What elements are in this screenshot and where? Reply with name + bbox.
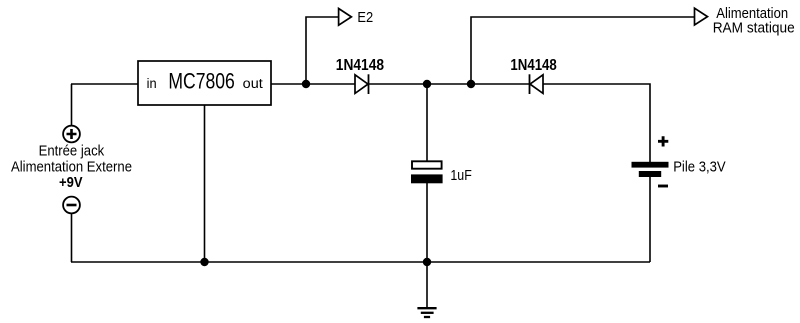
regulator U1 MC7806 — [138, 61, 271, 105]
wire capacitor down to bottom rail — [426, 183, 428, 262]
capacitor C1 1uF — [411, 161, 443, 183]
label battery plus — [658, 136, 668, 146]
arrow Alimentation RAM statique — [695, 8, 708, 25]
svg-text:1N4148: 1N4148 — [510, 57, 556, 74]
battery BT1 Pile 3,3V — [632, 162, 669, 177]
wire ground stem — [426, 262, 428, 308]
node E2 tap — [302, 80, 310, 88]
wire jack minus down to bottom rail — [71, 214, 73, 262]
node capacitor tap — [423, 80, 431, 88]
jack minus terminal — [63, 197, 80, 214]
wire input horizontal to regulator — [71, 83, 138, 85]
wire bottom rail — [71, 261, 650, 263]
diode D2 1N4148 — [530, 74, 544, 94]
wire regulator ground down to bottom rail — [204, 105, 206, 262]
wire D1 cathode to D2 cathode — [368, 83, 529, 85]
svg-text:1N4148: 1N4148 — [336, 57, 384, 74]
node RAM tap — [467, 80, 475, 88]
node capacitor / bottom rail — [423, 258, 431, 266]
wire battery minus down to bottom rail — [649, 177, 651, 262]
wire RAM branch — [471, 17, 695, 84]
svg-text:Pile 3,3V: Pile 3,3V — [673, 160, 726, 176]
svg-text:1uF: 1uF — [450, 168, 472, 184]
node regulator ground / bottom rail — [200, 258, 208, 266]
wire E2 branch — [306, 17, 339, 84]
wire regulator out to diode D1 — [271, 83, 355, 85]
svg-text:in: in — [147, 76, 157, 91]
diode D1 1N4148 — [355, 74, 369, 94]
ground — [417, 308, 436, 317]
svg-text:E2: E2 — [357, 10, 373, 26]
svg-text:Alimentation Externe: Alimentation Externe — [11, 159, 132, 175]
arrow E2 — [339, 9, 352, 26]
wire D2 anode to battery top corner — [543, 84, 650, 162]
label battery minus — [658, 185, 668, 188]
svg-text:Entrée jack: Entrée jack — [39, 144, 105, 160]
svg-text:MC7806: MC7806 — [168, 69, 234, 94]
wire input vertical down to jack plus — [71, 84, 73, 125]
jack plus terminal — [63, 126, 80, 143]
svg-text:+9V: +9V — [59, 175, 83, 191]
wire diode node down to capacitor — [426, 84, 428, 161]
svg-text:RAM statique: RAM statique — [713, 20, 795, 36]
svg-text:out: out — [243, 76, 263, 91]
